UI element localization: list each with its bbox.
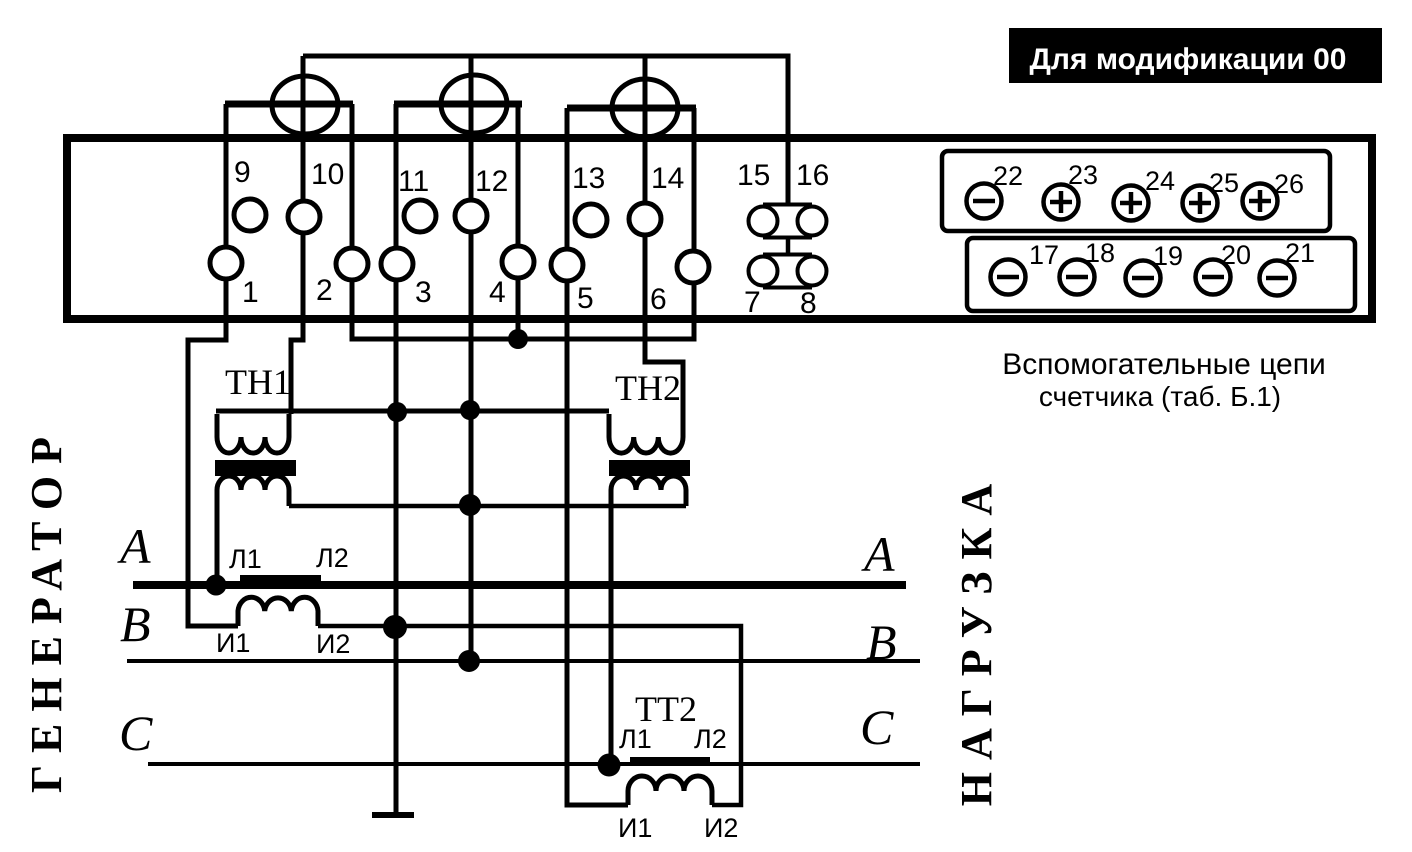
svg-text:11: 11	[398, 165, 429, 198]
svg-text:C: C	[119, 705, 153, 761]
svg-text:A: A	[861, 526, 895, 582]
svg-text:Вспомогательные цепи: Вспомогательные цепи	[1002, 348, 1325, 381]
svg-text:НАГРУЗКА: НАГРУЗКА	[952, 472, 1001, 806]
svg-text:17: 17	[1029, 240, 1059, 270]
svg-text:Л1: Л1	[229, 544, 262, 574]
svg-text:И2: И2	[704, 813, 738, 843]
svg-text:1: 1	[242, 276, 259, 309]
svg-text:6: 6	[650, 283, 667, 316]
svg-text:14: 14	[651, 162, 684, 195]
svg-text:25: 25	[1209, 168, 1239, 198]
svg-text:15: 15	[737, 159, 770, 192]
svg-text:И1: И1	[216, 628, 250, 658]
svg-text:ТН1: ТН1	[225, 362, 291, 402]
svg-text:22: 22	[993, 161, 1023, 191]
svg-text:8: 8	[800, 287, 817, 320]
svg-text:23: 23	[1068, 160, 1098, 190]
svg-text:ТТ2: ТТ2	[635, 689, 697, 729]
svg-text:12: 12	[475, 165, 508, 198]
svg-text:4: 4	[489, 276, 506, 309]
svg-text:9: 9	[234, 156, 251, 189]
svg-text:ГЕНЕРАТОР: ГЕНЕРАТОР	[22, 425, 71, 793]
svg-text:26: 26	[1274, 169, 1304, 199]
svg-text:A: A	[117, 518, 151, 574]
svg-text:Л2: Л2	[694, 724, 727, 754]
svg-text:Л2: Л2	[316, 543, 349, 573]
svg-text:счетчика (таб. Б.1): счетчика (таб. Б.1)	[1039, 381, 1281, 412]
svg-text:16: 16	[796, 159, 829, 192]
svg-text:3: 3	[415, 276, 432, 309]
svg-text:13: 13	[572, 162, 605, 195]
svg-text:7: 7	[744, 286, 761, 319]
svg-text:10: 10	[311, 158, 344, 191]
svg-text:Для модификации 00: Для модификации 00	[1030, 43, 1347, 76]
svg-text:B: B	[120, 596, 151, 652]
svg-text:B: B	[866, 614, 897, 670]
svg-text:И1: И1	[618, 813, 652, 843]
svg-text:И2: И2	[316, 629, 350, 659]
svg-text:2: 2	[316, 274, 333, 307]
svg-text:ТН2: ТН2	[615, 368, 681, 408]
svg-text:20: 20	[1221, 240, 1251, 270]
svg-text:21: 21	[1285, 238, 1315, 268]
svg-text:5: 5	[577, 282, 594, 315]
svg-text:C: C	[860, 699, 894, 755]
svg-text:18: 18	[1085, 238, 1115, 268]
svg-text:19: 19	[1153, 241, 1183, 271]
svg-text:24: 24	[1145, 166, 1175, 196]
